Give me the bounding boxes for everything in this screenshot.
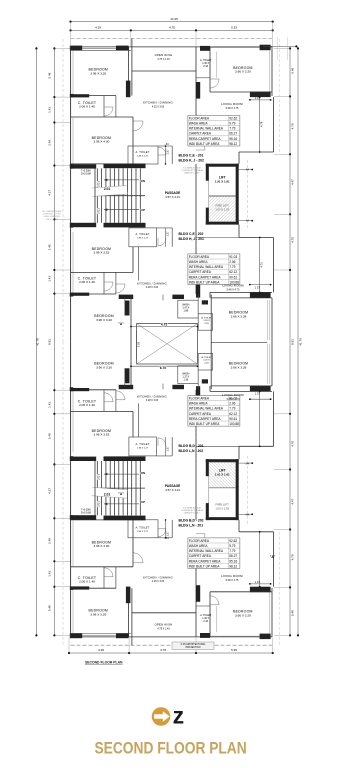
- svg-text:1.37: 1.37: [255, 392, 261, 396]
- svg-text:7.79: 7.79: [229, 265, 235, 269]
- svg-text:5.48 X 4.75: 5.48 X 4.75: [226, 107, 239, 110]
- svg-text:4.27: 4.27: [48, 488, 52, 494]
- svg-text:3.66 X 3.20: 3.66 X 3.20: [235, 613, 251, 617]
- svg-text:LIVING ROOM: LIVING ROOM: [221, 102, 243, 106]
- svg-text:4.47: 4.47: [291, 179, 295, 185]
- svg-text:3.96 X 3.20: 3.96 X 3.20: [96, 318, 112, 322]
- svg-text:4.47: 4.47: [291, 498, 295, 504]
- svg-text:7.79: 7.79: [229, 407, 235, 411]
- svg-text:D+0.16M: D+0.16M: [81, 512, 91, 515]
- svg-text:BLDG B,D - 201: BLDG B,D - 201: [179, 444, 204, 448]
- svg-text:KITCHEN / DINNING: KITCHEN / DINNING: [137, 281, 167, 285]
- svg-text:2.01: 2.01: [97, 208, 101, 214]
- svg-text:3.66 X 3.28: 3.66 X 3.28: [231, 314, 247, 318]
- svg-text:4.29: 4.29: [98, 648, 104, 652]
- svg-text:66.27: 66.27: [229, 554, 237, 558]
- svg-text:LIVING ROOM: LIVING ROOM: [221, 574, 243, 578]
- svg-text:INDI BUILT UP AREA: INDI BUILT UP AREA: [189, 142, 221, 146]
- svg-text:X AS ARCHITECTURAL: X AS ARCHITECTURAL: [181, 643, 207, 646]
- svg-text:INTERNAL WALL AREA: INTERNAL WALL AREA: [189, 549, 224, 553]
- svg-text:SCALE DRAWINGS,: SCALE DRAWINGS,: [44, 215, 61, 218]
- svg-text:UP: UP: [141, 500, 145, 504]
- svg-text:ON: ON: [141, 179, 145, 183]
- svg-text:RERA CARPET AREA: RERA CARPET AREA: [189, 559, 222, 563]
- svg-text:-.94: -.94: [164, 143, 169, 146]
- svg-text:A. TOILET: A. TOILET: [136, 442, 150, 446]
- svg-text:3.96 X 4.00: 3.96 X 4.00: [93, 544, 109, 548]
- svg-text:4.75 X 1.43: 4.75 X 1.43: [157, 627, 170, 630]
- svg-text:2.06 X 1.40: 2.06 X 1.40: [79, 403, 95, 407]
- svg-text:CARPET AREA: CARPET AREA: [189, 554, 212, 558]
- svg-text:4.75 X 1.43: 4.75 X 1.43: [157, 58, 170, 61]
- svg-text:66.27: 66.27: [229, 132, 237, 136]
- svg-text:91.03: 91.03: [229, 397, 237, 401]
- svg-text:41.76: 41.76: [299, 338, 303, 346]
- svg-text:WASH AREA: WASH AREA: [189, 122, 209, 126]
- svg-text:6.75: 6.75: [160, 366, 166, 370]
- svg-text:ALL DIMENSIONS ARE: ALL DIMENSIONS ARE: [42, 210, 62, 213]
- svg-text:INDI BUILT UP AREA: INDI BUILT UP AREA: [189, 422, 221, 426]
- svg-text:62.12: 62.12: [229, 412, 237, 416]
- svg-text:BLDG H, J - 201: BLDG H, J - 201: [179, 237, 205, 241]
- svg-text:z: z: [173, 703, 185, 729]
- svg-text:KITCHEN / DINNING: KITCHEN / DINNING: [143, 101, 173, 105]
- svg-text:1.63 X 1.93: 1.63 X 1.93: [215, 507, 229, 511]
- svg-text:INTERNAL WALL AREA: INTERNAL WALL AREA: [189, 407, 224, 411]
- svg-text:5.48: 5.48: [291, 67, 295, 73]
- svg-text:INTERNAL WALL AREA: INTERNAL WALL AREA: [189, 265, 224, 269]
- svg-text:2.01: 2.01: [97, 501, 101, 507]
- svg-text:4.79: 4.79: [291, 554, 295, 560]
- svg-text:8.81: 8.81: [291, 339, 295, 345]
- svg-text:2.49: 2.49: [48, 140, 52, 146]
- svg-text:4.73: 4.73: [260, 262, 264, 268]
- svg-text:1.83 X 1.27: 1.83 X 1.27: [137, 238, 149, 240]
- svg-text:INDI BUILT UP AREA: INDI BUILT UP AREA: [189, 564, 221, 568]
- svg-text:4.25 X 3.63: 4.25 X 3.63: [152, 105, 165, 108]
- svg-text:3.96 X 4.00: 3.96 X 4.00: [93, 140, 109, 144]
- svg-text:5.48: 5.48: [48, 72, 52, 78]
- svg-text:FLOOR AREA: FLOOR AREA: [189, 116, 210, 120]
- svg-text:2.06: 2.06: [229, 402, 235, 406]
- svg-text:FLOOR AREA: FLOOR AREA: [189, 397, 210, 401]
- svg-text:RERA CARPET AREA: RERA CARPET AREA: [189, 417, 222, 421]
- svg-text:1.37: 1.37: [166, 149, 170, 155]
- svg-text:INTERNAL WALL AREA: INTERNAL WALL AREA: [189, 127, 224, 131]
- svg-text:4.79: 4.79: [260, 121, 264, 127]
- svg-text:95.16: 95.16: [229, 137, 237, 141]
- svg-text:3.66 X 3.20: 3.66 X 3.20: [235, 70, 251, 74]
- svg-text:2.01: 2.01: [97, 474, 101, 480]
- svg-text:90.61: 90.61: [229, 275, 237, 279]
- svg-text:SECOND FLOOR PLAN: SECOND FLOOR PLAN: [95, 739, 247, 757]
- svg-text:D+0.16M: D+0.16M: [81, 173, 91, 176]
- svg-text:3.28 X 3.63: 3.28 X 3.63: [146, 286, 159, 289]
- svg-text:3.96 X 3.20: 3.96 X 3.20: [90, 612, 106, 616]
- svg-text:3.28 X 3.63: 3.28 X 3.63: [146, 399, 159, 402]
- svg-text:1.37: 1.37: [166, 446, 170, 452]
- svg-text:1.83 X 1.27: 1.83 X 1.27: [137, 531, 149, 533]
- svg-text:4.75: 4.75: [169, 26, 175, 30]
- svg-text:3.66 X 3.28: 3.66 X 3.28: [231, 365, 247, 369]
- svg-text:A. TOILET: A. TOILET: [201, 316, 212, 319]
- svg-text:3.96 X 3.52: 3.96 X 3.52: [93, 433, 109, 437]
- svg-text:100.88: 100.88: [229, 422, 239, 426]
- svg-text:OPEN W/SH: OPEN W/SH: [155, 623, 173, 627]
- svg-text:FIRE LIFT: FIRE LIFT: [216, 204, 230, 208]
- svg-text:100.88: 100.88: [229, 280, 239, 284]
- svg-text:CARPET AREA: CARPET AREA: [189, 132, 212, 136]
- svg-text:5.48 X 4.75: 5.48 X 4.75: [226, 579, 239, 582]
- svg-text:7.79: 7.79: [229, 549, 235, 553]
- svg-text:1.83 X 1.27: 1.83 X 1.27: [137, 448, 149, 450]
- svg-text:FIRE LIFT: FIRE LIFT: [216, 503, 230, 507]
- svg-text:4.57 X 4.01: 4.57 X 4.01: [165, 488, 180, 492]
- svg-text:41.78: 41.78: [36, 338, 40, 346]
- svg-text:5.48 X 4.73: 5.48 X 4.73: [227, 288, 240, 291]
- svg-text:CARPET AREA: CARPET AREA: [189, 270, 212, 274]
- svg-text:1.37: 1.37: [166, 231, 170, 237]
- svg-text:1.43: 1.43: [48, 107, 52, 113]
- svg-text:WASH AREA: WASH AREA: [189, 260, 209, 264]
- svg-text:1.43: 1.43: [48, 571, 52, 577]
- svg-text:PROJECTION: PROJECTION: [186, 647, 201, 649]
- svg-text:4.75: 4.75: [161, 323, 167, 327]
- svg-text:AREA OF LOBBY: AREA OF LOBBY: [184, 511, 200, 514]
- svg-text:5.35: 5.35: [231, 648, 237, 652]
- svg-text:4.70: 4.70: [291, 441, 295, 447]
- svg-text:1.37: 1.37: [255, 580, 261, 584]
- svg-text:5.48: 5.48: [291, 610, 295, 616]
- svg-text:WASH AREA: WASH AREA: [189, 402, 209, 406]
- svg-text:9.79: 9.79: [229, 544, 235, 548]
- svg-text:1.80 X 1.27: 1.80 X 1.27: [137, 156, 149, 158]
- svg-text:BLDG C,E - 202: BLDG C,E - 202: [179, 232, 204, 236]
- svg-text:KITCHEN / DINNING: KITCHEN / DINNING: [137, 394, 167, 398]
- svg-text:4.27: 4.27: [48, 190, 52, 196]
- svg-text:1.63 X 1.93: 1.63 X 1.93: [215, 208, 229, 212]
- svg-text:7.79: 7.79: [229, 127, 235, 131]
- svg-text:BLDG L,N - 202: BLDG L,N - 202: [179, 449, 204, 453]
- svg-text:5.48: 5.48: [48, 605, 52, 611]
- svg-text:CARPET AREA: CARPET AREA: [189, 412, 212, 416]
- svg-text:2.01: 2.01: [104, 493, 111, 497]
- svg-text:1.88: 1.88: [183, 310, 188, 313]
- svg-text:OPEN W/SH: OPEN W/SH: [155, 53, 173, 57]
- svg-text:RERA CARPET AREA: RERA CARPET AREA: [189, 275, 222, 279]
- svg-text:-.94: -.94: [245, 513, 250, 517]
- svg-text:1.91 X 1.91: 1.91 X 1.91: [215, 473, 230, 477]
- svg-text:"A": "A": [270, 555, 276, 559]
- svg-text:62.12: 62.12: [229, 270, 237, 274]
- svg-text:BLDG L,N - 201: BLDG L,N - 201: [179, 524, 204, 528]
- svg-text:2.49: 2.49: [48, 538, 52, 544]
- svg-text:2.01: 2.01: [97, 181, 101, 187]
- svg-text:UP: UP: [141, 208, 145, 212]
- svg-text:3.48: 3.48: [48, 433, 52, 439]
- svg-text:4.57 X 4.01: 4.57 X 4.01: [165, 195, 180, 199]
- svg-text:4.29: 4.29: [95, 26, 101, 30]
- svg-text:-.94: -.94: [245, 168, 250, 172]
- svg-text:RERA CARPET AREA: RERA CARPET AREA: [189, 137, 222, 141]
- svg-text:FLOOR AREA: FLOOR AREA: [189, 255, 210, 259]
- svg-text:BLDG B,D - 202: BLDG B,D - 202: [179, 519, 204, 523]
- svg-text:1.37: 1.37: [255, 96, 261, 100]
- svg-text:92.62: 92.62: [229, 539, 237, 543]
- svg-text:2.18: 2.18: [203, 65, 208, 68]
- svg-text:1.20 X: 1.20 X: [203, 320, 210, 322]
- svg-text:95.16: 95.16: [229, 559, 237, 563]
- svg-text:"A": "A": [118, 322, 124, 326]
- svg-text:3.48: 3.48: [48, 244, 52, 250]
- svg-text:BLDG C,E - 201: BLDG C,E - 201: [179, 154, 204, 158]
- svg-text:2.01: 2.01: [104, 187, 111, 191]
- svg-text:KITCHEN / DINNING: KITCHEN / DINNING: [143, 575, 173, 579]
- svg-text:4.25 X 3.63: 4.25 X 3.63: [152, 580, 165, 583]
- svg-text:1.37: 1.37: [255, 286, 261, 290]
- svg-text:INDI BUILT UP AREA: INDI BUILT UP AREA: [189, 280, 221, 284]
- svg-text:91.03: 91.03: [229, 255, 237, 259]
- svg-text:1.20 X: 1.20 X: [203, 360, 210, 362]
- svg-text:1.43: 1.43: [48, 402, 52, 408]
- svg-text:1.38: 1.38: [183, 379, 188, 382]
- svg-text:4.79: 4.79: [291, 123, 295, 129]
- svg-text:A. TOILET: A. TOILET: [136, 150, 150, 154]
- svg-text:5.33: 5.33: [231, 26, 237, 30]
- svg-text:2.18: 2.18: [203, 620, 208, 623]
- svg-text:5.05: 5.05: [136, 341, 140, 347]
- svg-text:3.96 X 3.20: 3.96 X 3.20: [90, 71, 106, 75]
- svg-text:A. TOILET: A. TOILET: [136, 525, 150, 529]
- svg-text:BLDG K, J - 202: BLDG K, J - 202: [179, 159, 205, 163]
- svg-text:"A": "A": [118, 492, 124, 496]
- svg-text:2.06 X 1.40: 2.06 X 1.40: [79, 580, 95, 584]
- svg-text:ON: ON: [141, 471, 145, 475]
- svg-text:8.81: 8.81: [48, 339, 52, 345]
- svg-text:-.94: -.94: [245, 462, 250, 466]
- svg-text:A. TOILET: A. TOILET: [136, 232, 150, 236]
- svg-text:FLOOR AREA: FLOOR AREA: [189, 539, 210, 543]
- svg-text:3.96 X 3.20: 3.96 X 3.20: [96, 365, 112, 369]
- svg-text:1.43: 1.43: [48, 276, 52, 282]
- svg-text:4.79: 4.79: [160, 648, 166, 652]
- svg-text:1.91 X 1.91: 1.91 X 1.91: [215, 180, 230, 184]
- svg-text:90.61: 90.61: [229, 417, 237, 421]
- svg-text:USE FIG. DIMS.: USE FIG. DIMS.: [45, 219, 59, 221]
- svg-text:98.12: 98.12: [229, 564, 237, 568]
- svg-text:3.96 X 3.52: 3.96 X 3.52: [93, 251, 109, 255]
- svg-text:1.37: 1.37: [166, 531, 170, 537]
- svg-text:92.62: 92.62: [229, 116, 237, 120]
- svg-text:4.70: 4.70: [291, 237, 295, 243]
- svg-text:-.94: -.94: [245, 219, 250, 223]
- svg-text:2.06: 2.06: [229, 260, 235, 264]
- svg-text:2.06 X 1.40: 2.06 X 1.40: [79, 280, 95, 284]
- svg-text:AREA OF LOBBY: AREA OF LOBBY: [184, 171, 200, 174]
- svg-text:WASH AREA: WASH AREA: [189, 544, 209, 548]
- svg-text:2.06 X 1.40: 2.06 X 1.40: [79, 105, 95, 109]
- svg-text:9.79: 9.79: [229, 122, 235, 126]
- svg-text:A. TOILET: A. TOILET: [201, 356, 212, 359]
- svg-text:SECOND FLOOR PLAN: SECOND FLOOR PLAN: [85, 661, 123, 665]
- svg-text:-.94: -.94: [164, 537, 169, 540]
- svg-text:14.35: 14.35: [170, 17, 178, 21]
- svg-text:98.12: 98.12: [229, 142, 237, 146]
